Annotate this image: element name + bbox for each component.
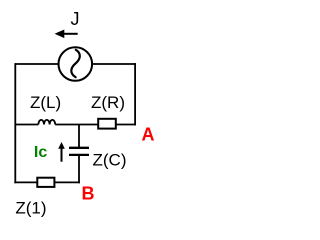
svg-text:A: A — [142, 125, 155, 145]
wire capacitor branch lower — [78, 156, 80, 184]
wire bottom right segment — [54, 181, 80, 183]
svg-text:Z(1): Z(1) — [15, 198, 46, 217]
capacitor Z(C) — [69, 148, 89, 155]
resistor Z(1) — [37, 178, 54, 187]
wire middle horizontal between inductor and resistor — [55, 124, 97, 126]
wire left vertical — [14, 63, 16, 183]
svg-text:Z(R): Z(R) — [91, 93, 125, 112]
wire capacitor branch upper — [78, 125, 80, 148]
wire right vertical — [134, 63, 136, 125]
wire middle horizontal right of resistor — [117, 124, 137, 126]
svg-text:B: B — [82, 184, 95, 204]
wire top-left segment — [15, 63, 59, 65]
wire middle horizontal left of inductor — [15, 124, 38, 126]
resistor Z(R) — [98, 119, 116, 129]
svg-text:Z(C): Z(C) — [93, 151, 127, 170]
svg-text:J: J — [71, 9, 80, 29]
arrow for source current J (points left) — [55, 30, 78, 39]
wire bottom left segment — [14, 181, 37, 183]
wire top-right segment — [93, 63, 137, 65]
svg-text:Z(L): Z(L) — [30, 93, 61, 112]
arrow for capacitor current Ic (points up) — [58, 142, 65, 162]
svg-text:Ic: Ic — [34, 144, 47, 161]
inductor Z(L) — [38, 120, 55, 125]
current source J (AC) — [59, 47, 93, 81]
